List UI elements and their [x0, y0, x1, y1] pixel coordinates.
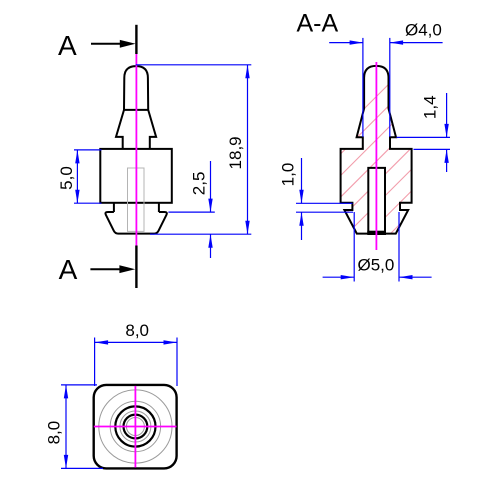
- arrows 1,0 (outside): [299, 190, 303, 204]
- dim 1,4 line: [446, 93, 448, 137]
- dim Ø5,0 line: [323, 276, 355, 278]
- section cut line bottom mark: [135, 246, 137, 289]
- dim 2,5 line: [210, 161, 212, 212]
- section arrow top: [91, 40, 136, 48]
- arrows 8,0 vertical (inside): [64, 385, 68, 399]
- section arrow bottom: [90, 265, 135, 273]
- arrows 5,0: [75, 150, 79, 164]
- dim 18,9 line: [247, 65, 249, 234]
- dim 8,0 vertical ext lines: [61, 384, 97, 386]
- svg-text:8,0: 8,0: [45, 421, 64, 445]
- dim 18,9 top ext line: [136, 64, 252, 66]
- dim 8,0 horizontal ext lines: [94, 338, 96, 387]
- svg-text:2,5: 2,5: [189, 172, 208, 196]
- dim 2,5 ext line: [168, 211, 214, 213]
- hatching (45 deg, clipped to section material): [233, 60, 500, 240]
- svg-text:A: A: [58, 30, 77, 61]
- svg-text:A-A: A-A: [296, 10, 338, 38]
- svg-text:A: A: [59, 254, 78, 285]
- thin circle r15.5: [120, 411, 151, 442]
- svg-text:1,0: 1,0: [279, 163, 298, 187]
- thin circle r25.2: [110, 401, 160, 451]
- arrows Ø5,0 (outside): [341, 275, 355, 279]
- centerline front: [135, 54, 137, 246]
- dim 8,0 vertical line: [65, 385, 67, 469]
- dim 8,0 horizontal line: [95, 341, 177, 343]
- hole bottom dark bar: [367, 231, 386, 235]
- dim 1,4 ext lines: [397, 136, 451, 138]
- arrows 18,9: [245, 65, 249, 79]
- thin circle r9: [126, 418, 144, 436]
- dim 5,0 line: [76, 150, 78, 203]
- hidden hole bottom part over flange: [128, 212, 145, 231]
- dim 5,0 ext lines: [74, 149, 102, 151]
- hidden hole inside body (gray, redrawn over body fill): [128, 168, 145, 231]
- section cut line top mark: [135, 25, 137, 54]
- centerline section: [375, 62, 377, 250]
- svg-text:5,0: 5,0: [57, 166, 76, 190]
- lower neck: [113, 203, 115, 212]
- thick circle r20.1: [115, 406, 155, 446]
- body rectangle: [100, 149, 172, 203]
- dim Ø4,0 ext lines: [362, 38, 364, 137]
- cone top line: [124, 109, 148, 111]
- arrows 8,0 horizontal (inside): [95, 340, 109, 344]
- dim Ø5,0 ext lines: [353, 212, 355, 282]
- dim Ø4,0 line: [329, 42, 363, 44]
- thick circle r11.9: [123, 415, 147, 439]
- section material fill: [341, 66, 412, 234]
- arrows 1,4 (outside): [444, 124, 448, 137]
- svg-text:Ø4,0: Ø4,0: [405, 21, 442, 40]
- svg-text:8,0: 8,0: [125, 321, 149, 340]
- section material outline: [341, 66, 412, 234]
- thin circle r36.6: [99, 390, 172, 463]
- arrows 2,5 (outside): [208, 199, 212, 213]
- hidden hole (gray): [128, 168, 145, 231]
- pin + cone + neck outline: [116, 66, 156, 149]
- dim 1,0 ext lines: [296, 202, 353, 204]
- bottom flange: [105, 212, 166, 234]
- crosshair centerlines: [94, 426, 177, 428]
- dim 1,0 line: [301, 158, 303, 203]
- bottom ext line (flange bottom, shared 2,5/18,9): [150, 233, 251, 235]
- outer square: [94, 385, 177, 469]
- arrows Ø4,0 (outside): [350, 40, 364, 44]
- svg-text:Ø5,0: Ø5,0: [357, 255, 394, 274]
- svg-text:18,9: 18,9: [226, 136, 245, 169]
- svg-text:1,4: 1,4: [421, 95, 440, 119]
